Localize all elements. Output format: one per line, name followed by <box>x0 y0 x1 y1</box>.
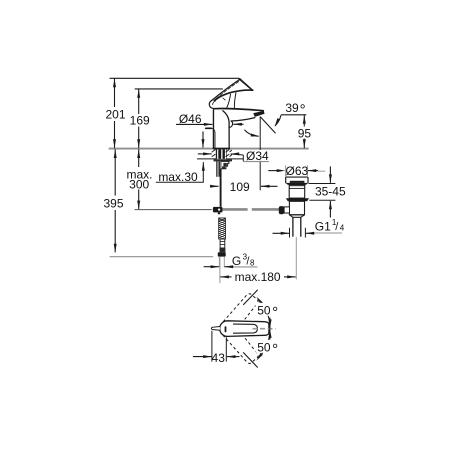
pull rod curve into body <box>211 128 215 148</box>
flange outline <box>286 176 308 178</box>
39 deg vertical leg / 109 right extension <box>259 117 261 191</box>
svg-text:G: G <box>232 254 241 268</box>
solid lever outline <box>220 321 269 337</box>
svg-text:Ø63: Ø63 <box>286 164 309 178</box>
svg-text:G1: G1 <box>315 219 331 233</box>
dashed lever rotated +50 <box>223 326 260 366</box>
shoulder and upper body <box>289 185 305 198</box>
dimension 395 line <box>114 149 116 252</box>
tailpipe <box>293 217 301 236</box>
extension line top of lever (201) <box>110 77 239 79</box>
39 deg upper arc <box>275 115 281 126</box>
lever neck right curve <box>234 93 236 108</box>
mounting washer <box>214 159 233 161</box>
flange bottom lip <box>286 183 309 185</box>
body bottom edge on deck <box>213 148 229 150</box>
395 bottom reference line <box>110 256 214 258</box>
svg-text:35-45: 35-45 <box>315 185 346 199</box>
lever handle end inner line <box>240 80 251 89</box>
lever pivot bulge <box>209 101 214 109</box>
horizontal pop-up rod to waste <box>223 208 248 211</box>
svg-text:95: 95 <box>298 126 312 140</box>
lever tip <box>238 78 241 81</box>
mounting nut stepped profile <box>221 161 229 168</box>
svg-text:max.180: max.180 <box>235 270 281 284</box>
svg-text:109: 109 <box>230 180 250 194</box>
39 deg diagonal leg <box>260 117 275 134</box>
pop-up rod vertical <box>220 169 222 207</box>
threaded shank below washer <box>217 161 221 176</box>
body-spout crease and body right edge <box>223 111 229 149</box>
plug cap bar <box>290 181 305 183</box>
text masks <box>100 107 153 210</box>
svg-text:max.30: max.30 <box>158 170 198 184</box>
deck hole hatching <box>212 150 232 157</box>
svg-text:°: ° <box>272 341 278 358</box>
hose end fitting <box>220 239 225 248</box>
rotation axis line bottom <box>243 352 258 367</box>
rod knob on waste <box>279 206 284 214</box>
39 deg horizontal reference <box>281 114 306 116</box>
pull rod knob <box>206 127 212 129</box>
dashed lever rotated -50 <box>223 292 260 332</box>
deck underside line <box>197 158 217 160</box>
shank threads <box>216 149 227 159</box>
flexible hose braid <box>219 218 226 239</box>
spout underside <box>231 118 255 121</box>
dimension 95 line <box>303 115 305 148</box>
svg-text:169: 169 <box>130 113 150 127</box>
dimension 201 line <box>114 78 116 148</box>
rotation reference vertical <box>269 318 271 340</box>
lever neck left curve <box>227 94 231 107</box>
arrowheads: dimensions left column <box>113 79 140 253</box>
svg-text:300: 300 <box>129 177 149 191</box>
gray centerline <box>253 328 276 330</box>
gasket ring <box>286 198 309 201</box>
lever handle underside <box>214 90 252 101</box>
extension line 169 level <box>135 88 223 90</box>
body cap top and spout top edge <box>214 109 263 111</box>
pivot mark <box>225 326 227 332</box>
rod socket <box>284 207 289 213</box>
39 deg lower arc <box>244 130 258 137</box>
svg-text:Ø46: Ø46 <box>179 112 202 126</box>
rotation arc bottom <box>258 332 270 359</box>
svg-text:39: 39 <box>285 101 299 115</box>
lever inner line <box>233 324 257 333</box>
G3/8 nut <box>218 252 226 256</box>
lower body <box>289 201 304 215</box>
bottom rim <box>289 215 304 218</box>
svg-text:Ø34: Ø34 <box>246 149 269 163</box>
aerator wedge <box>253 111 264 117</box>
lever handle end face <box>240 79 253 90</box>
svg-text:°: ° <box>272 304 278 321</box>
body left edge <box>212 110 214 148</box>
svg-text:50: 50 <box>257 341 271 355</box>
lever handle top edge <box>211 79 240 101</box>
dimension 169 line <box>138 89 140 148</box>
max.300 bottom reference / pop-up rod thin line <box>135 209 212 211</box>
rotation arc top <box>258 299 270 326</box>
svg-text:43: 43 <box>212 351 226 365</box>
lever handle inner highlight line <box>215 82 239 100</box>
svg-text:395: 395 <box>103 197 123 211</box>
svg-text:50: 50 <box>257 304 271 318</box>
svg-text:8: 8 <box>250 258 255 267</box>
svg-text:201: 201 <box>105 107 125 121</box>
svg-text:4: 4 <box>340 224 345 233</box>
deck reference line <box>109 148 309 150</box>
dimension max.300 line <box>138 149 140 209</box>
rod stub below clamp <box>218 212 220 214</box>
pivot bulge inner marks <box>213 98 226 105</box>
rod clamp junction <box>213 207 223 213</box>
svg-text:°: ° <box>300 101 306 118</box>
spout root hook <box>229 121 233 127</box>
rotation axis line top <box>243 290 258 305</box>
lever pin <box>211 327 220 331</box>
